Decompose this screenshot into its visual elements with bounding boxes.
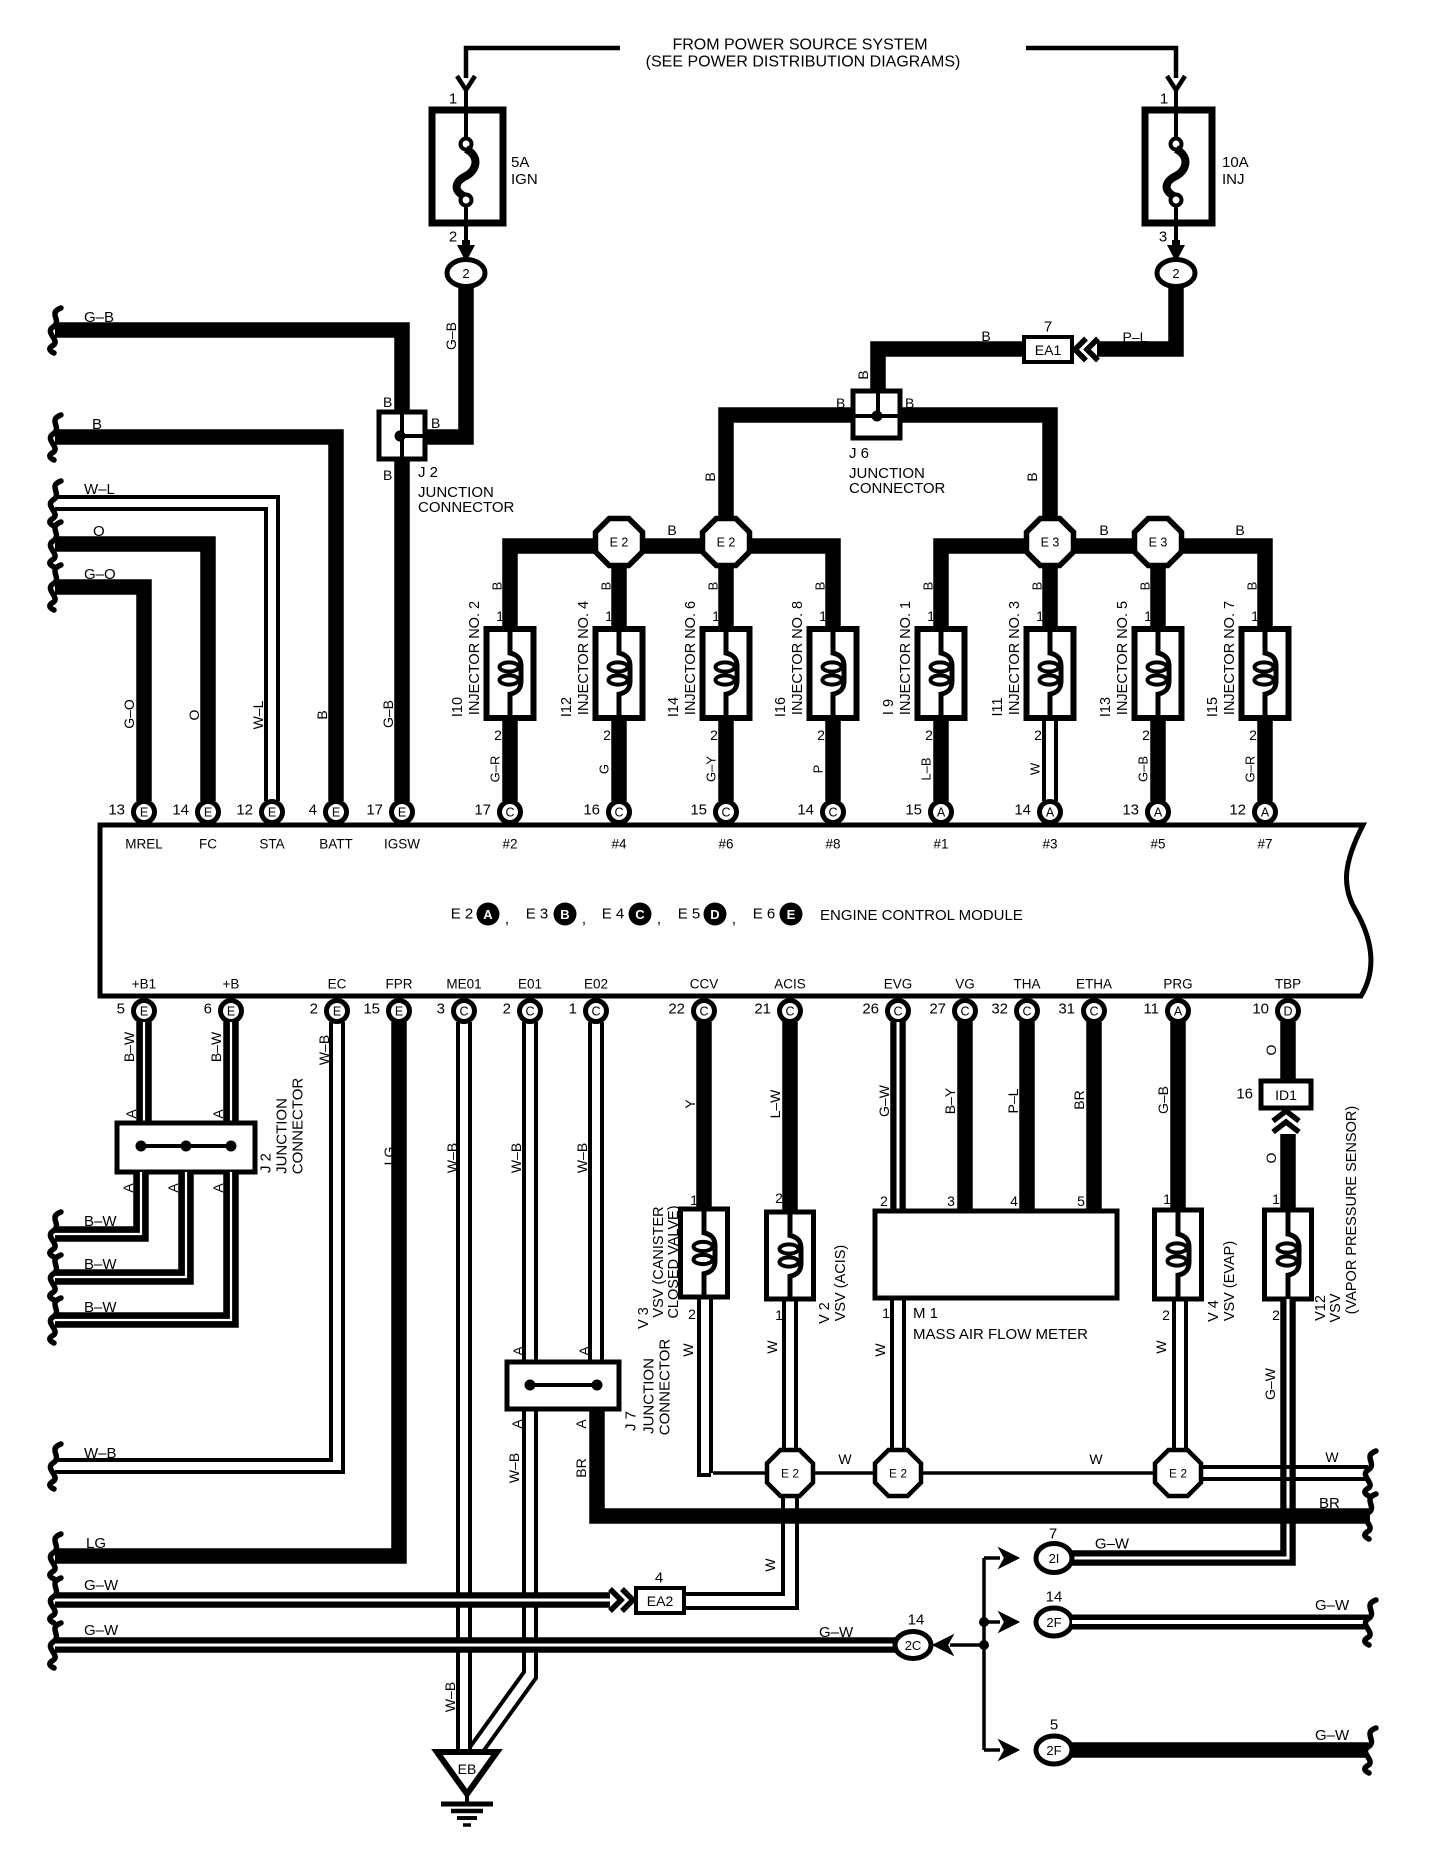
svg-text:2: 2	[1272, 1307, 1280, 1323]
svg-text:32: 32	[991, 1001, 1008, 1018]
svg-text:A: A	[1174, 1005, 1183, 1019]
svg-text:E: E	[268, 806, 276, 820]
svg-text:4: 4	[655, 1570, 663, 1587]
wire feed to fuse INJ	[1026, 48, 1176, 78]
ECM pin 5 E +B1 (bottom)	[134, 1001, 155, 1022]
svg-text:G–W: G–W	[84, 1622, 119, 1639]
wire W-B from pin E02 to junction J7	[588, 1022, 592, 1362]
svg-text:2: 2	[310, 1001, 318, 1018]
svg-text:A: A	[1154, 806, 1163, 820]
svg-text:E: E	[227, 1005, 235, 1019]
svg-text:E 5: E 5	[678, 906, 701, 923]
wire G-B (left) to junction J2	[50, 308, 61, 353]
svg-text:G–W: G–W	[819, 1624, 854, 1641]
svg-text:JUNCTION: JUNCTION	[641, 1358, 658, 1434]
svg-text:CLOSED VALVE): CLOSED VALVE)	[666, 1205, 682, 1318]
wire B bus to injector no.8	[749, 546, 833, 629]
wire B bus to injector no.5	[1150, 565, 1166, 629]
svg-text:INJECTOR NO. 1: INJECTOR NO. 1	[898, 601, 914, 715]
svg-text:ID1: ID1	[1275, 1087, 1297, 1103]
svg-text:E: E	[395, 1005, 403, 1019]
svg-text:FPR: FPR	[386, 977, 413, 992]
svg-text:C: C	[635, 907, 645, 922]
svg-text:1: 1	[690, 1192, 698, 1208]
svg-text:2: 2	[462, 266, 469, 281]
svg-text:#1: #1	[933, 837, 948, 852]
svg-text:CONNECTOR: CONNECTOR	[657, 1339, 674, 1436]
wire W from V3 to octagon bus	[699, 1297, 711, 1475]
wire O from ID1 to VSV V12	[1280, 1134, 1296, 1210]
ECM pin 2 C E01 (bottom)	[520, 1001, 541, 1022]
svg-text:INJECTOR NO. 8: INJECTOR NO. 8	[790, 601, 806, 715]
wire G-W from 2F(14) to harness	[1072, 1615, 1368, 1630]
wire G-B from J2 to ECM pin IGSW	[394, 459, 410, 801]
svg-text:A: A	[510, 1346, 526, 1356]
svg-text:2: 2	[1249, 727, 1257, 743]
svg-text:L–W: L–W	[767, 1089, 783, 1119]
svg-text:6: 6	[204, 1001, 212, 1018]
ECM pin 13 A #5 (top)	[1148, 802, 1169, 823]
svg-text:14: 14	[908, 1612, 925, 1629]
injector no. 4 I12	[559, 582, 643, 801]
svg-text:W–B: W–B	[84, 1445, 117, 1462]
svg-text:W: W	[1028, 762, 1043, 775]
wire W-B from pin ME01 to ground EB	[456, 1022, 460, 1752]
svg-text:ETHA: ETHA	[1076, 977, 1112, 992]
svg-text:2: 2	[1034, 727, 1042, 743]
wire B-W from pin +B to junction J2	[223, 1022, 239, 1123]
svg-text:E 2: E 2	[451, 906, 474, 923]
svg-text:E 2: E 2	[717, 536, 736, 550]
svg-text:E 2: E 2	[889, 1467, 907, 1481]
svg-text:C: C	[785, 1005, 794, 1019]
wire B bus to injector no.2	[510, 546, 596, 629]
svg-text:MREL: MREL	[125, 837, 163, 852]
octagon connector E2 (sensor ground C)	[1155, 1450, 1201, 1496]
svg-text:ACIS: ACIS	[774, 977, 806, 992]
wire G-B from IGN fuse to junction J2	[425, 286, 466, 437]
svg-text:13: 13	[1122, 802, 1139, 819]
svg-text:W–L: W–L	[84, 481, 115, 498]
svg-text:5: 5	[1050, 1717, 1058, 1734]
ECM pin 1 C E02 (bottom)	[586, 1001, 607, 1022]
junction connector J7	[507, 1362, 619, 1409]
ECM pin 26 C EVG (bottom)	[888, 1001, 909, 1022]
connector EA1	[1075, 339, 1086, 361]
wire P-L from pin THA to mass air flow meter	[1019, 1022, 1035, 1211]
svg-text:W: W	[1325, 1449, 1339, 1465]
svg-text:C: C	[1022, 1005, 1031, 1019]
injector no. 3 I11	[990, 582, 1074, 801]
svg-text:B: B	[314, 710, 330, 719]
svg-text:B: B	[560, 907, 569, 922]
svg-text:7: 7	[1049, 1526, 1057, 1543]
svg-text:12: 12	[236, 802, 253, 819]
svg-text:14: 14	[1046, 1589, 1063, 1606]
svg-text:E 3: E 3	[526, 906, 549, 923]
svg-text:EC: EC	[328, 977, 347, 992]
svg-text:INJECTOR NO. 5: INJECTOR NO. 5	[1115, 601, 1131, 715]
svg-text:B: B	[1099, 522, 1108, 538]
svg-text:B–W: B–W	[84, 1213, 117, 1230]
svg-text:B–W: B–W	[208, 1031, 224, 1062]
svg-text:Y: Y	[682, 1099, 698, 1109]
ECM pin 11 A PRG (bottom)	[1168, 1001, 1189, 1022]
svg-text:E: E	[787, 907, 796, 922]
wire G-W from pin EVG to mass air flow meter	[890, 1022, 906, 1211]
ECM pin 10 D TBP (bottom)	[1278, 1001, 1299, 1022]
svg-text:B: B	[1245, 582, 1260, 591]
wire L-W from pin ACIS to VSV V2	[782, 1022, 798, 1212]
wire B to ECM pin BATT	[50, 415, 61, 460]
svg-text:#7: #7	[1257, 837, 1272, 852]
ECM pin 14 E FC (top)	[198, 802, 219, 823]
svg-text:G–O: G–O	[84, 566, 116, 583]
svg-text:B: B	[383, 467, 392, 483]
fuse 5A IGN	[432, 110, 503, 223]
svg-text:#3: #3	[1042, 837, 1057, 852]
svg-text:1: 1	[1036, 608, 1044, 624]
ECM pin 2 E EC (bottom)	[327, 1001, 348, 1022]
svg-text:BR: BR	[1319, 1495, 1340, 1512]
svg-text:G–W: G–W	[1095, 1536, 1130, 1553]
svg-text:ME01: ME01	[446, 977, 481, 992]
svg-text:B: B	[1030, 582, 1045, 591]
wire to connector 2F (5)	[984, 1748, 1000, 1752]
svg-text:CONNECTOR: CONNECTOR	[849, 480, 946, 497]
svg-text:E 2: E 2	[781, 1467, 799, 1481]
svg-text:2: 2	[503, 1001, 511, 1018]
ECM pin 32 C THA (bottom)	[1017, 1001, 1038, 1022]
svg-text:10: 10	[1252, 1001, 1269, 1018]
svg-text:FROM POWER SOURCE SYSTEM: FROM POWER SOURCE SYSTEM	[672, 37, 927, 54]
ECM pin 15 E FPR (bottom)	[389, 1001, 410, 1022]
wire P-L from INJ fuse through EA1	[1097, 286, 1176, 349]
svg-text:E: E	[398, 806, 406, 820]
wire B from J6 right branch to octagon E3	[900, 415, 1050, 519]
svg-text:INJECTOR NO. 4: INJECTOR NO. 4	[576, 601, 592, 715]
svg-text:B: B	[813, 582, 828, 591]
svg-text:C: C	[721, 806, 730, 820]
svg-text:B: B	[1235, 522, 1244, 538]
wire G-W from 2F(5) to harness	[1072, 1742, 1368, 1758]
ECM pin 21 C ACIS (bottom)	[780, 1001, 801, 1022]
pin 3 of fuse INJ	[1174, 223, 1178, 244]
svg-text:2: 2	[817, 727, 825, 743]
svg-text:G–W: G–W	[1315, 1597, 1350, 1614]
svg-text:#6: #6	[718, 837, 733, 852]
svg-text:C: C	[505, 806, 514, 820]
svg-text:A: A	[123, 1109, 139, 1119]
wire BR from pin ETHA to mass air flow meter	[1086, 1022, 1102, 1211]
wire G-W from harness to EA2	[50, 1578, 61, 1623]
engine control module box	[100, 825, 1371, 996]
svg-text:INJECTOR NO. 7: INJECTOR NO. 7	[1222, 601, 1238, 715]
svg-text:I 9: I 9	[881, 699, 897, 715]
ECM pin 15 A #1 (top)	[931, 802, 952, 823]
svg-text:INJ: INJ	[1222, 171, 1245, 188]
wire G-O to ECM pin MREL	[50, 565, 61, 610]
junction connector J2 (lower)	[117, 1123, 255, 1172]
svg-text:C: C	[525, 1005, 534, 1019]
svg-text:I15: I15	[1205, 697, 1221, 717]
svg-text:A: A	[1046, 806, 1055, 820]
svg-text:I12: I12	[559, 697, 575, 717]
svg-text:,: ,	[732, 911, 736, 928]
svg-text:10A: 10A	[1222, 154, 1249, 171]
svg-text:E 2: E 2	[1169, 1467, 1187, 1481]
svg-text:VSV: VSV	[1328, 1293, 1344, 1322]
svg-text:,: ,	[657, 911, 661, 928]
svg-text:14: 14	[172, 802, 189, 819]
svg-text:E 4: E 4	[602, 906, 625, 923]
svg-text:2: 2	[775, 1190, 783, 1206]
wire B from J6 left branch to octagon E2	[726, 415, 853, 519]
svg-text:1: 1	[1272, 1191, 1280, 1207]
svg-text:V12: V12	[1313, 1295, 1329, 1321]
svg-text:B: B	[706, 582, 721, 591]
svg-text:1: 1	[605, 608, 613, 624]
octagon connector E2 (injectors 2-4)	[596, 519, 643, 566]
ECM pin 4 E BATT (top)	[326, 802, 347, 823]
wire W from M1 to octagon E2	[890, 1298, 894, 1450]
ECM pin 6 E +B (bottom)	[221, 1001, 242, 1022]
svg-text:BATT: BATT	[319, 837, 353, 852]
svg-text:B–W: B–W	[121, 1031, 137, 1062]
wire O to ECM pin FC	[50, 522, 61, 567]
svg-text:LG: LG	[86, 1535, 106, 1552]
svg-text:V 3: V 3	[636, 1307, 652, 1329]
svg-text:THA: THA	[1014, 977, 1041, 992]
junction connector J6	[853, 391, 900, 438]
svg-text:E01: E01	[518, 977, 542, 992]
svg-text:#4: #4	[611, 837, 627, 852]
svg-text:2: 2	[1162, 1307, 1170, 1323]
svg-text:G: G	[597, 764, 612, 774]
wire B bus oct E3 to oct E3	[1073, 538, 1135, 554]
svg-text:B: B	[1138, 582, 1153, 591]
svg-text:B: B	[431, 415, 440, 431]
svg-text:W: W	[872, 1343, 888, 1357]
svg-text:A: A	[210, 1109, 226, 1119]
svg-text:1: 1	[569, 1001, 577, 1018]
svg-text:VSV (CANISTER: VSV (CANISTER	[651, 1206, 667, 1317]
wire B from EA1 to junction J6	[878, 349, 1024, 391]
svg-text:J 6: J 6	[849, 445, 869, 462]
svg-text:A: A	[573, 1419, 589, 1429]
injector no. 8 I16	[773, 582, 857, 801]
svg-text:1: 1	[1144, 608, 1152, 624]
svg-text:,: ,	[505, 911, 509, 928]
svg-text:B: B	[981, 328, 990, 344]
svg-text:G–B: G–B	[1155, 1086, 1171, 1114]
svg-text:31: 31	[1058, 1001, 1075, 1018]
svg-text:E: E	[140, 806, 148, 820]
svg-text:14: 14	[797, 802, 814, 819]
wire B bus to injector no.6	[718, 565, 734, 629]
svg-text:2: 2	[688, 1306, 696, 1322]
octagon connector E3 (injectors 1-3)	[1027, 519, 1074, 566]
octagon connector E2 (injectors 6-8)	[703, 519, 750, 566]
svg-text:G–B: G–B	[1136, 756, 1151, 782]
ECM pin 15 C #6 (top)	[716, 802, 737, 823]
ECM pin 27 C VG (bottom)	[955, 1001, 976, 1022]
svg-text:A: A	[937, 806, 946, 820]
svg-text:2: 2	[1172, 266, 1179, 281]
svg-text:O: O	[186, 709, 202, 720]
svg-text:G–Y: G–Y	[704, 756, 719, 782]
svg-text:E: E	[332, 806, 340, 820]
svg-text:E: E	[204, 806, 212, 820]
svg-text:W–L: W–L	[250, 700, 266, 729]
svg-text:1: 1	[882, 1305, 890, 1321]
svg-text:3: 3	[437, 1001, 445, 1018]
svg-text:5A: 5A	[511, 154, 529, 171]
svg-text:B: B	[921, 582, 936, 591]
ECM pin 14 C #8 (top)	[823, 802, 844, 823]
svg-text:W–B: W–B	[508, 1143, 524, 1173]
wire G-B from pin PRG to VSV V4	[1170, 1022, 1186, 1210]
svg-text:3: 3	[1159, 229, 1167, 246]
wire B bus to injector no.3	[1042, 565, 1058, 629]
svg-text:W–B: W–B	[316, 1035, 332, 1065]
svg-text:VSV (ACIS): VSV (ACIS)	[833, 1245, 849, 1322]
svg-text:+B: +B	[223, 977, 240, 992]
svg-text:B: B	[702, 472, 718, 481]
svg-text:C: C	[699, 1005, 708, 1019]
svg-text:2F: 2F	[1046, 1743, 1061, 1758]
injector no. 5 I13	[1098, 582, 1182, 801]
svg-text:STA: STA	[259, 837, 284, 852]
ECM pin 17 E IGSW (top)	[392, 802, 413, 823]
svg-text:V 4: V 4	[1206, 1300, 1222, 1322]
svg-text:INJECTOR NO. 6: INJECTOR NO. 6	[683, 601, 699, 715]
svg-text:C: C	[591, 1005, 600, 1019]
svg-text:IGSW: IGSW	[384, 837, 420, 852]
svg-text:V 2: V 2	[817, 1302, 833, 1324]
VSV V12 (vapor pressure sensor)	[1265, 1210, 1312, 1299]
svg-text:2: 2	[880, 1193, 888, 1209]
svg-text:FC: FC	[199, 837, 217, 852]
svg-text:3: 3	[947, 1193, 955, 1209]
wire B bus oct E2 to oct E2	[642, 538, 703, 554]
ECM pin 16 C #4 (top)	[609, 802, 630, 823]
wire W from octagon A to EA2	[684, 1496, 783, 1594]
VSV V3 (canister closed valve)	[681, 1209, 728, 1297]
svg-text:W: W	[762, 1558, 778, 1572]
svg-text:27: 27	[929, 1001, 946, 1018]
branch node for G-W splice	[982, 1558, 986, 1750]
svg-text:INJECTOR NO. 2: INJECTOR NO. 2	[467, 601, 483, 715]
wire to connector 2F (14)	[984, 1620, 1000, 1624]
wire B bus to injector no.1	[941, 546, 1027, 629]
svg-text:B–W: B–W	[84, 1299, 117, 1316]
svg-text:2: 2	[925, 727, 933, 743]
wire W-B from pin E01 to junction J7	[522, 1022, 526, 1362]
svg-text:26: 26	[862, 1001, 879, 1018]
svg-text:15: 15	[905, 802, 922, 819]
svg-text:G–B: G–B	[84, 309, 114, 326]
svg-text:B: B	[667, 522, 676, 538]
svg-text:4: 4	[1010, 1193, 1018, 1209]
svg-text:2F: 2F	[1046, 1615, 1061, 1630]
svg-text:W–B: W–B	[442, 1682, 458, 1712]
svg-text:7: 7	[1044, 319, 1052, 336]
svg-text:EA1: EA1	[1035, 342, 1062, 358]
svg-text:A: A	[1261, 806, 1270, 820]
svg-text:C: C	[893, 1005, 902, 1019]
svg-text:CONNECTOR: CONNECTOR	[290, 1078, 307, 1175]
VSV V4 (EVAP)	[1155, 1210, 1202, 1299]
svg-text:B: B	[490, 582, 505, 591]
svg-text:I11: I11	[990, 697, 1006, 716]
ECM pin 31 C ETHA (bottom)	[1084, 1001, 1105, 1022]
svg-text:CONNECTOR: CONNECTOR	[418, 499, 515, 516]
svg-text:TBP: TBP	[1275, 977, 1301, 992]
connector oval 2 (IGN)	[447, 260, 485, 287]
ECM pin 12 A #7 (top)	[1255, 802, 1276, 823]
svg-text:C: C	[1089, 1005, 1098, 1019]
connector EA2	[622, 1589, 633, 1611]
VSV V2 (ACIS)	[767, 1212, 814, 1299]
svg-text:1: 1	[1160, 91, 1168, 108]
svg-text:B: B	[1024, 472, 1040, 481]
wire W from V4 to octagon E2	[1172, 1299, 1176, 1450]
svg-text:B: B	[855, 370, 871, 379]
svg-text:G–W: G–W	[1262, 1367, 1278, 1400]
svg-text:B: B	[383, 394, 392, 410]
svg-text:J 2: J 2	[258, 1153, 275, 1173]
svg-text:1: 1	[775, 1307, 783, 1323]
svg-text:17: 17	[366, 802, 383, 819]
wire B bus to injector no.7	[1181, 546, 1265, 629]
fuse 10A INJ	[1145, 110, 1212, 223]
svg-text:I10: I10	[450, 697, 466, 717]
svg-text:O: O	[93, 523, 105, 540]
svg-text:G–B: G–B	[380, 700, 396, 728]
svg-text:W–B: W–B	[444, 1143, 460, 1173]
wire W bus between octagons	[713, 1471, 768, 1475]
svg-text:W: W	[1153, 1340, 1169, 1354]
svg-text:(SEE POWER DISTRIBUTION DIAGRA: (SEE POWER DISTRIBUTION DIAGRAMS)	[646, 54, 961, 71]
svg-text:E: E	[140, 1005, 148, 1019]
svg-text:P–L: P–L	[1123, 329, 1148, 345]
pin 2 of fuse IGN	[464, 223, 468, 244]
svg-text:5: 5	[117, 1001, 125, 1018]
svg-text:BR: BR	[573, 1458, 589, 1477]
svg-text:E 3: E 3	[1149, 536, 1168, 550]
svg-text:11: 11	[1143, 1001, 1159, 1018]
svg-text:16: 16	[583, 802, 600, 819]
wire O from pin TBP to ID1	[1280, 1022, 1296, 1081]
svg-text:IGN: IGN	[511, 171, 538, 188]
svg-text:G–R: G–R	[1243, 756, 1258, 783]
svg-text:,: ,	[582, 911, 586, 928]
wire feed to fuse IGN	[466, 48, 620, 78]
octagon connector E2 (sensor ground A)	[767, 1450, 813, 1496]
wire W from V2 to octagon E2	[782, 1299, 786, 1450]
junction connector J2 (upper)	[379, 412, 425, 459]
ECM pin 17 C #2 (top)	[500, 802, 521, 823]
wire BR from J7 to harness	[597, 1409, 1370, 1516]
wire B-Y from pin VG to mass air flow meter	[957, 1022, 973, 1211]
svg-text:VG: VG	[955, 977, 975, 992]
ECM pin 3 C ME01 (bottom)	[454, 1001, 475, 1022]
svg-text:1: 1	[712, 608, 720, 624]
ground symbol	[441, 1802, 493, 1807]
wire LG from pin FPR to harness	[55, 1022, 399, 1556]
svg-text:(VAPOR PRESSURE SENSOR): (VAPOR PRESSURE SENSOR)	[1344, 1106, 1360, 1314]
